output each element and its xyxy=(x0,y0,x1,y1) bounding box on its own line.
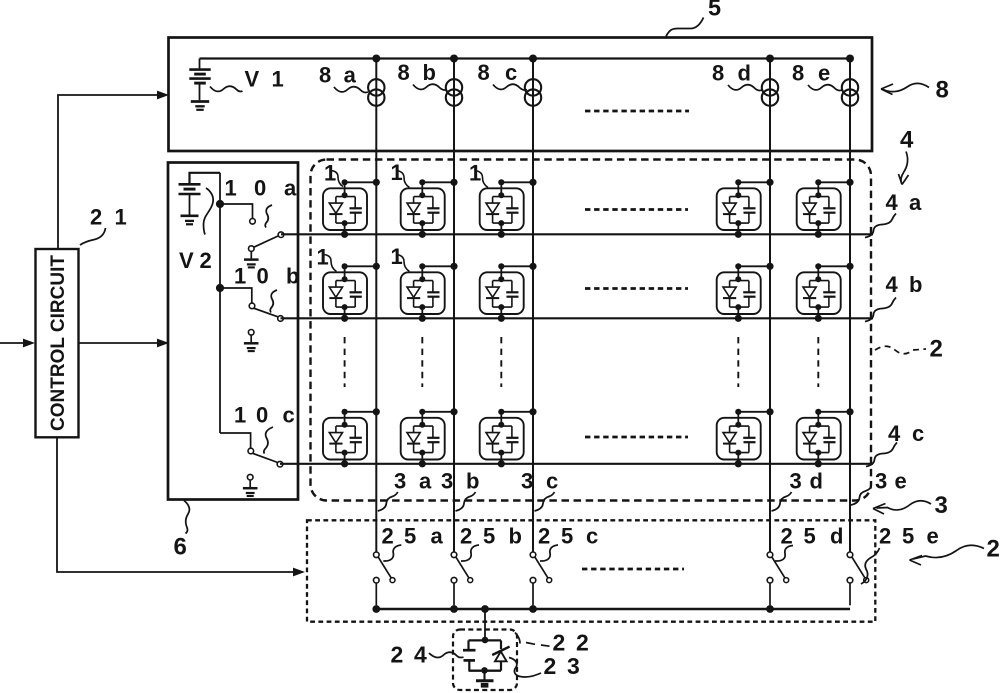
switch 10c blade (to row 4c) xyxy=(252,453,277,462)
svg-text:25c: 25c xyxy=(538,524,598,549)
leader for 2 3 xyxy=(509,658,541,678)
column c feed wire xyxy=(532,59,534,553)
leader for label 6 xyxy=(184,501,189,534)
junction V2 bus / switch 10a xyxy=(216,200,224,208)
light emitting element 1 (row c, column a) xyxy=(323,408,380,467)
light emitting element 1 (row c, column e) xyxy=(797,408,854,467)
battery V2 xyxy=(190,173,221,184)
switch 10a ground xyxy=(244,246,259,268)
leader for 8 a xyxy=(334,87,368,93)
leader for 2 5 d xyxy=(775,546,793,562)
column e continuation dashes xyxy=(817,337,819,387)
junction rail / column c xyxy=(529,55,537,63)
leader for 1 0 b xyxy=(270,290,277,313)
switch 10b blade (to row 4b) xyxy=(253,308,278,317)
light emitting element 1 (row b, column a) xyxy=(323,263,380,322)
light emitting element 1 (row b, column c) xyxy=(480,263,537,322)
column b continuation dashes xyxy=(421,337,423,387)
leader for 8 d xyxy=(728,85,762,91)
column a feed wire xyxy=(375,59,377,553)
svg-text:1: 1 xyxy=(324,161,336,186)
light emitting element 1 (row a, column a) xyxy=(323,179,380,238)
svg-text:25b: 25b xyxy=(460,524,522,549)
svg-text:6: 6 xyxy=(174,534,187,561)
light emitting element 1 (row c, column c) xyxy=(480,408,537,467)
leader for 2 4 xyxy=(429,652,464,657)
V2 bus wire xyxy=(219,173,221,433)
junction rail / column d xyxy=(766,55,774,63)
junction rail / switch 25a xyxy=(372,605,380,613)
leader for 2 5 e xyxy=(861,548,880,584)
row line 4c xyxy=(280,463,873,465)
svg-text:5: 5 xyxy=(708,0,721,21)
svg-text:3: 3 xyxy=(935,492,948,519)
control circuit box 21 xyxy=(36,249,79,437)
wire rail to current limiter xyxy=(484,609,486,640)
junction V2 bus / switch 10b xyxy=(216,284,224,292)
switch 10a pole contact xyxy=(250,219,256,225)
transistor 24 branch xyxy=(467,640,469,649)
ellipsis dots in anode driver xyxy=(585,110,689,113)
leader for 8 e xyxy=(808,85,842,91)
leader for 2 5 a xyxy=(383,545,401,561)
ellipsis dots in switch block xyxy=(582,568,684,571)
svg-text:10c: 10c xyxy=(234,403,295,428)
wire control to anode driver xyxy=(58,95,163,249)
V2 bus elbow to switch 10c xyxy=(220,433,251,448)
wire control to column switch block xyxy=(57,437,299,572)
svg-text:8: 8 xyxy=(936,77,949,104)
label V1 xyxy=(210,86,243,91)
junction rail / column a xyxy=(372,55,380,63)
ground for V2 xyxy=(181,214,199,217)
leader for 2 1 xyxy=(80,228,106,245)
svg-text:CONTROL CIRCUIT: CONTROL CIRCUIT xyxy=(48,255,69,431)
svg-text:1: 1 xyxy=(469,161,481,186)
leader for 3 d xyxy=(772,492,792,511)
light emitting element 1 (row b, column d) xyxy=(717,263,774,322)
light emitting element 1 (row a, column d) xyxy=(717,179,774,238)
row line 4a xyxy=(281,233,873,235)
junction rail / switch 25d xyxy=(766,605,774,613)
current limiter dashed outline 22 xyxy=(453,630,517,691)
column b feed wire xyxy=(453,59,455,553)
svg-text:25e: 25e xyxy=(879,524,939,549)
switch 25d xyxy=(767,552,789,605)
column d continuation dashes xyxy=(737,337,739,387)
junction rail / limiter drop xyxy=(481,605,489,613)
light emitting element 1 (row a, column c) xyxy=(480,179,537,238)
switch 10a row contact xyxy=(278,232,284,238)
switch 25e xyxy=(847,552,869,605)
column switch block dashed outline 2 xyxy=(307,520,875,621)
limiter top node xyxy=(482,637,489,644)
row a ellipsis dots xyxy=(585,208,688,211)
light emitting element 1 (row b, column e) xyxy=(797,263,854,322)
switch 25c xyxy=(530,552,552,605)
anode driver box 5 xyxy=(169,38,873,152)
limiter bottom node xyxy=(481,667,488,674)
leader for 3 b xyxy=(456,492,476,511)
light emitting element 1 (row a, column b) xyxy=(401,179,458,238)
light emitting element 1 (row c, column b) xyxy=(401,408,458,467)
junction rail / switch 25b xyxy=(450,605,458,613)
leader for 1 0 a xyxy=(265,205,272,228)
column d feed wire xyxy=(769,59,771,553)
switch 25a xyxy=(374,552,396,605)
external input arrow xyxy=(0,342,30,344)
limiter loop bottom xyxy=(469,670,502,672)
leader for 3 a xyxy=(378,492,398,511)
leader for 2 5 b xyxy=(461,545,479,561)
wire to ground xyxy=(483,671,485,680)
current source 8a xyxy=(368,79,384,95)
switch 10c ground xyxy=(243,474,258,496)
display panel dashed outline 2 xyxy=(311,160,872,501)
switch 10b feed wire xyxy=(220,288,252,303)
column a continuation dashes xyxy=(344,337,346,387)
switch 10a blade (to ground) xyxy=(254,236,278,247)
row line 4b xyxy=(281,317,874,319)
switch 10b row contact xyxy=(278,316,284,322)
wire control to row driver xyxy=(79,342,164,344)
switch 10c row contact xyxy=(277,461,283,467)
row c ellipsis dots xyxy=(585,436,688,439)
svg-text:1: 1 xyxy=(317,245,329,270)
svg-text:25a: 25a xyxy=(382,524,444,549)
leader line for label 5 xyxy=(666,18,704,37)
switch 10a feed wire xyxy=(220,204,253,219)
limiter ground xyxy=(476,679,494,682)
svg-text:10b: 10b xyxy=(234,264,299,289)
leader for 3 e xyxy=(851,488,871,505)
battery V1 xyxy=(199,59,201,70)
current source 8b xyxy=(446,79,462,95)
light emitting element 1 (row c, column d) xyxy=(717,408,774,467)
leader for 1 0 c xyxy=(264,427,273,454)
zener diode 23 branch xyxy=(500,640,502,649)
switch 10b pole contact xyxy=(249,303,255,309)
ground for V1 xyxy=(191,100,209,103)
leader for 8 b xyxy=(413,84,447,90)
junction rail / switch 25c xyxy=(529,605,537,613)
leader for 8 c xyxy=(493,84,527,90)
leader for 2 5 c xyxy=(540,545,558,561)
light emitting element 1 (row a, column e) xyxy=(797,179,854,238)
limiter loop top xyxy=(469,639,502,641)
svg-text:2: 2 xyxy=(930,336,943,363)
column e feed wire xyxy=(849,59,851,553)
leader for V2 xyxy=(204,188,214,235)
row driver box 6 xyxy=(168,163,298,500)
row b ellipsis dots xyxy=(585,287,688,290)
leader for 3 c xyxy=(535,492,555,511)
current source 8d xyxy=(762,79,778,95)
switch 10b ground xyxy=(244,330,259,352)
svg-text:10a: 10a xyxy=(225,176,298,201)
light emitting element 1 (row b, column b) xyxy=(401,263,458,322)
column c continuation dashes xyxy=(500,337,502,387)
junction rail / column b xyxy=(450,55,458,63)
svg-text:4: 4 xyxy=(900,127,914,154)
supply rail from V1 xyxy=(200,57,851,59)
current source 8c xyxy=(525,79,541,95)
switch 25b xyxy=(451,552,473,605)
svg-text:25d: 25d xyxy=(781,524,844,549)
current source 8e xyxy=(842,79,858,95)
svg-text:2: 2 xyxy=(987,536,1000,563)
switch 10c pole contact xyxy=(248,448,254,454)
junction rail / column e xyxy=(846,55,854,63)
common rail of column switches xyxy=(376,608,850,611)
